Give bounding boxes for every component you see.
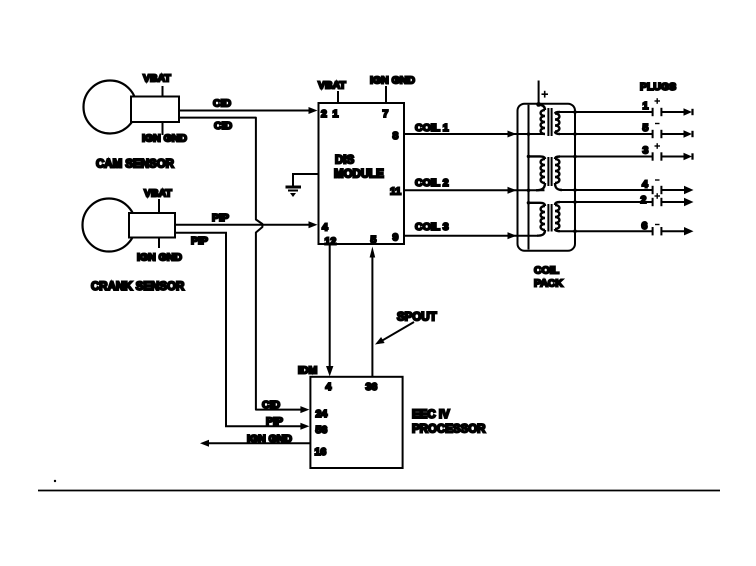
svg-text:5: 5 xyxy=(371,234,377,246)
arrow COIL 3 into coil pack xyxy=(508,232,517,239)
svg-text:16: 16 xyxy=(315,446,327,458)
svg-text:2: 2 xyxy=(321,108,327,120)
spark plug 6 xyxy=(653,227,694,235)
wire to plug 2 xyxy=(560,201,653,203)
wire SPOUT from EEC pin 36 to DIS pin 5 xyxy=(371,255,373,377)
spark plug 4 xyxy=(653,186,694,194)
coil pack outline xyxy=(518,104,576,251)
transformer T3 primary xyxy=(529,203,546,236)
cam sensor xyxy=(84,81,180,134)
spark plug 3 xyxy=(653,152,693,160)
svg-text:3: 3 xyxy=(643,144,649,156)
svg-text:VBAT: VBAT xyxy=(318,80,346,92)
svg-text:4: 4 xyxy=(322,222,328,234)
arrow IDM into EEC pin 4 xyxy=(326,366,333,376)
svg-text:EEC IV: EEC IV xyxy=(412,409,450,421)
spark plug 5 xyxy=(653,130,693,138)
label DIS MODULE xyxy=(334,155,384,181)
plug 3 polarity + xyxy=(655,143,661,149)
svg-text:COIL: COIL xyxy=(534,265,560,277)
plug 5 polarity xyxy=(655,123,660,125)
wire VBAT cam sensor xyxy=(162,86,164,97)
svg-text:2: 2 xyxy=(641,194,647,206)
svg-text:PIP: PIP xyxy=(191,235,208,247)
wire IGN GND from EEC pin 16 xyxy=(208,442,310,444)
wire CID to DIS pin 2 xyxy=(179,110,310,112)
svg-text:COIL 2: COIL 2 xyxy=(415,177,449,189)
wire PIP to EEC pin 56 xyxy=(175,233,301,426)
transformer T1 primary xyxy=(538,105,545,134)
arrow SPOUT into DIS pin 5 xyxy=(370,247,376,258)
svg-text:PROCESSOR: PROCESSOR xyxy=(412,424,486,436)
arrow IGN GND (left) xyxy=(200,440,209,447)
SPOUT pointer line xyxy=(378,322,414,343)
svg-text:IDM: IDM xyxy=(298,365,318,377)
svg-text:7: 7 xyxy=(383,108,389,120)
ground symbol xyxy=(286,187,302,197)
svg-text:DIS: DIS xyxy=(335,155,355,167)
speck xyxy=(54,480,56,482)
transformer T2 secondary xyxy=(555,157,562,191)
junction dots on bus xyxy=(527,132,531,204)
svg-text:PIP: PIP xyxy=(266,416,283,428)
plug 4 polarity xyxy=(655,179,660,181)
svg-text:PACK: PACK xyxy=(534,278,563,290)
spark plug 1 xyxy=(653,108,693,116)
svg-text:4: 4 xyxy=(326,381,332,393)
plug 1 polarity + xyxy=(655,98,661,104)
transformer T3 secondary xyxy=(555,202,560,231)
plug 2 polarity + xyxy=(655,193,661,199)
wire COIL 1 xyxy=(404,133,545,135)
svg-text:IGN GND: IGN GND xyxy=(370,75,415,87)
wire IDM from DIS pin 12 to EEC pin 4 xyxy=(329,244,331,368)
svg-text:PLUGS: PLUGS xyxy=(640,81,676,93)
transformer T2 core xyxy=(548,157,551,186)
svg-text:VBAT: VBAT xyxy=(144,188,172,200)
svg-text:CAM SENSOR: CAM SENSOR xyxy=(96,159,175,171)
primary bus wire xyxy=(528,105,530,250)
wire to plug 1 xyxy=(560,111,653,113)
svg-text:4: 4 xyxy=(642,178,648,190)
arrow into EEC pin 24 xyxy=(300,406,309,413)
svg-text:IGN GND: IGN GND xyxy=(137,252,182,264)
wire to plug 6 xyxy=(560,230,653,232)
svg-text:1: 1 xyxy=(333,108,339,120)
svg-text:CID: CID xyxy=(213,98,232,110)
svg-text:8: 8 xyxy=(393,130,399,142)
label + xyxy=(542,91,549,98)
svg-text:11: 11 xyxy=(390,186,401,198)
transformer T1 secondary xyxy=(555,112,560,134)
transformer T3 core xyxy=(548,204,551,232)
wire DIS ground xyxy=(293,174,319,186)
svg-text:9: 9 xyxy=(393,232,399,244)
junction dots at pack right edge xyxy=(573,110,577,233)
svg-text:CID: CID xyxy=(262,399,281,411)
SPOUT pointer arrowhead xyxy=(375,337,385,345)
arrow COIL 1 into coil pack xyxy=(508,131,517,138)
label COIL PACK xyxy=(534,265,563,290)
svg-text:1: 1 xyxy=(643,100,649,112)
wire PIP to DIS pin 4 xyxy=(175,224,310,226)
svg-text:24: 24 xyxy=(316,408,328,420)
svg-text:PIP: PIP xyxy=(212,212,229,224)
wire CID to EEC pin 24 (with jog over PIP) xyxy=(179,118,301,410)
transformer T2 primary xyxy=(529,156,546,190)
wire COIL 3 xyxy=(404,235,537,237)
svg-text:CID: CID xyxy=(214,120,233,132)
wire IGN GND crank sensor xyxy=(158,238,160,249)
svg-text:COIL 1: COIL 1 xyxy=(415,122,449,134)
arrow into DIS pin 4 xyxy=(309,221,318,228)
wire VBAT to DIS pin 1 xyxy=(337,91,339,103)
spark plug 2 xyxy=(653,198,694,206)
wire COIL 2 xyxy=(404,189,545,191)
svg-text:CRANK SENSOR: CRANK SENSOR xyxy=(91,281,185,293)
svg-text:36: 36 xyxy=(366,381,378,393)
svg-text:IGN GND: IGN GND xyxy=(142,133,187,145)
crank sensor xyxy=(83,199,176,252)
arrow into DIS pin 2 xyxy=(309,107,318,114)
svg-text:VBAT: VBAT xyxy=(143,73,171,85)
wire IGN GND to DIS pin 7 xyxy=(385,86,387,103)
label EEC IV PROCESSOR xyxy=(412,409,486,436)
svg-text:IGN GND: IGN GND xyxy=(247,433,292,445)
svg-text:56: 56 xyxy=(316,424,328,436)
svg-text:5: 5 xyxy=(643,122,649,134)
wire to plug 3 xyxy=(560,156,653,158)
svg-text:6: 6 xyxy=(642,220,648,232)
bottom rule xyxy=(38,490,720,492)
svg-text:COIL 3: COIL 3 xyxy=(415,221,449,233)
svg-text:SPOUT: SPOUT xyxy=(397,312,437,324)
B+ feed wire xyxy=(538,81,540,105)
wire to plug 5 xyxy=(560,133,653,135)
plug 6 polarity xyxy=(655,224,660,226)
DIS module U1 xyxy=(319,103,405,244)
junction dot B+ xyxy=(536,102,541,107)
wire IGN GND cam sensor xyxy=(162,122,164,135)
transformer T1 core xyxy=(548,108,551,136)
svg-text:MODULE: MODULE xyxy=(334,169,384,181)
wire VBAT crank sensor xyxy=(158,199,160,213)
arrow COIL 2 into coil pack xyxy=(508,187,517,194)
wire to plug 4 xyxy=(562,189,653,191)
EEC IV processor U2 xyxy=(310,377,402,468)
arrow into EEC pin 56 xyxy=(300,423,309,430)
